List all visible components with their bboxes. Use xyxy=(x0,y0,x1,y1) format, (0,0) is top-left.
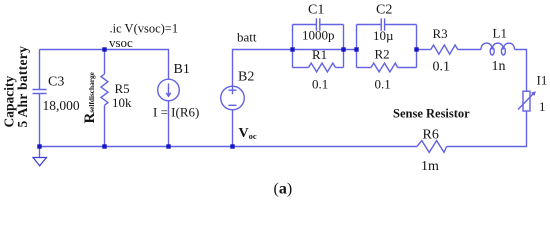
svg-text:R2: R2 xyxy=(375,46,390,61)
svg-text:C1: C1 xyxy=(308,3,324,18)
wire main through C1 block and to C2 block xyxy=(293,49,357,51)
svg-text:I = I(R6): I = I(R6) xyxy=(153,105,199,120)
svg-text:R1: R1 xyxy=(312,47,327,62)
svg-text:R6: R6 xyxy=(423,128,439,143)
svg-text:C2: C2 xyxy=(376,2,392,17)
wire R5 lower lead xyxy=(104,105,106,146)
wire C2R2 right riser xyxy=(416,25,418,68)
wire to R3 xyxy=(417,49,431,51)
wire R3 to L1 xyxy=(458,49,481,51)
junction R5 bottom xyxy=(102,144,106,148)
wire bottom bus xyxy=(40,146,417,148)
wire ground stub xyxy=(39,147,41,158)
svg-text:1m: 1m xyxy=(421,159,439,174)
junction C1 left xyxy=(290,47,294,51)
svg-text:vsoc: vsoc xyxy=(109,35,133,50)
wire R1 branch right xyxy=(336,67,344,69)
svg-text:10k: 10k xyxy=(112,95,132,110)
wire C2 top branch right xyxy=(385,24,417,26)
wire C1 top branch left xyxy=(293,24,317,26)
junction vsoc xyxy=(37,47,418,148)
svg-text:L1: L1 xyxy=(493,25,507,40)
junction C2 left xyxy=(354,47,358,51)
svg-text:1: 1 xyxy=(539,99,546,114)
svg-text:I1: I1 xyxy=(537,73,548,88)
svg-text:0.1: 0.1 xyxy=(312,77,328,92)
wire C2 top branch left xyxy=(357,24,382,26)
voltage source B2 circle xyxy=(221,86,245,110)
wire R5 upper lead xyxy=(104,50,106,75)
svg-text:R5: R5 xyxy=(115,81,130,96)
wire B2 lower lead xyxy=(232,110,234,147)
svg-text:1000p: 1000p xyxy=(302,27,335,42)
junction ground xyxy=(37,144,41,148)
current source B1 circle xyxy=(158,79,180,101)
wire C1 top branch right xyxy=(320,24,344,26)
B2 minus sign xyxy=(229,104,237,106)
capacitor C3 xyxy=(33,90,47,94)
junction B1 bottom xyxy=(166,144,170,148)
svg-text:0.1: 0.1 xyxy=(375,77,391,92)
svg-text:R3: R3 xyxy=(433,26,448,41)
resistor R2 xyxy=(371,63,398,72)
junction B2 bottom xyxy=(230,144,234,148)
resistor R3 xyxy=(431,45,458,54)
wire C1R1 left riser xyxy=(292,25,294,68)
capacitor C1 xyxy=(316,18,319,30)
wire vsoc junction to B1 xyxy=(105,50,169,80)
svg-text:B2: B2 xyxy=(238,69,254,84)
svg-text:.ic V(vsoc)=1: .ic V(vsoc)=1 xyxy=(110,22,179,36)
resistor R6 sense xyxy=(417,141,447,153)
B1 arrow xyxy=(166,84,171,97)
resistor R1 xyxy=(309,63,336,72)
capacitor C2 xyxy=(381,18,384,30)
wire C1R1 right riser xyxy=(343,25,345,68)
svg-text:0.1: 0.1 xyxy=(433,60,451,75)
I1 arrow xyxy=(518,93,534,110)
wire R2 branch right xyxy=(398,67,417,69)
B2 plus sign xyxy=(229,86,237,94)
wire L1 to right corner and down to I1 xyxy=(515,50,527,92)
ground symbol xyxy=(33,158,47,166)
svg-text:18,000: 18,000 xyxy=(43,98,80,113)
wire C3 lower lead xyxy=(39,94,41,147)
svg-text:10µ: 10µ xyxy=(373,28,394,43)
svg-text:1n: 1n xyxy=(492,59,506,74)
svg-text:C3: C3 xyxy=(48,75,64,90)
wire I1 down and bottom right run xyxy=(447,111,527,147)
svg-text:Sense Resistor: Sense Resistor xyxy=(393,106,470,120)
svg-text:B1: B1 xyxy=(174,62,190,77)
svg-text:5 Ahr battery: 5 Ahr battery xyxy=(15,46,30,128)
wire B1 lower lead xyxy=(168,101,170,147)
wire R1 branch left xyxy=(293,67,309,69)
wire C2R2 left riser xyxy=(356,25,358,68)
wire C3 upper lead xyxy=(39,50,41,90)
wire batt from B2 top xyxy=(233,50,293,87)
svg-text:(a): (a) xyxy=(274,181,293,198)
svg-text:batt: batt xyxy=(237,30,257,45)
junction C2 right xyxy=(414,47,418,51)
wire R2 branch left xyxy=(357,67,372,69)
load I1 box xyxy=(523,91,530,111)
resistor R5 xyxy=(101,74,108,105)
junction C1 right xyxy=(341,47,345,51)
inductor L1 xyxy=(481,43,515,49)
wire top-left from C3 to vsoc junction xyxy=(40,49,105,51)
